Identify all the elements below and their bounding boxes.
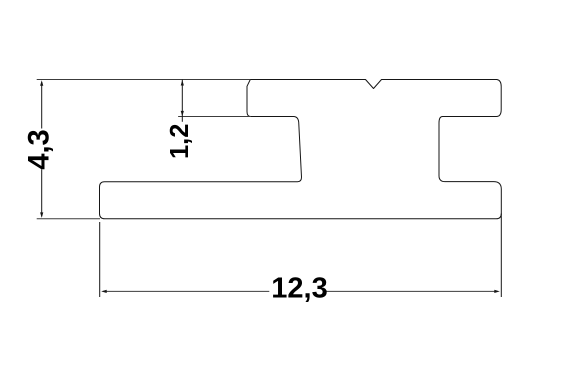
arrowhead 12,3 left [101, 290, 107, 293]
arrowhead 1,2 top [181, 80, 184, 86]
svg-text:4,3: 4,3 [24, 129, 56, 170]
arrowhead 12,3 right [494, 290, 500, 293]
dimension line 12,3 horizontal [103, 290, 270, 292]
svg-text:12,3: 12,3 [271, 273, 327, 305]
svg-text:1,2: 1,2 [166, 124, 194, 159]
extension line 12,3 left vertical [99, 222, 101, 297]
extension line top (4,3) collinear with cap top [37, 79, 251, 81]
dimension line 4,3 vertical [41, 82, 43, 129]
arrowhead 4,3 top [40, 80, 43, 86]
extension line 1,2 (step surface) [178, 116, 251, 118]
dimension line 1,2 vertical [181, 80, 183, 122]
arrowhead 1,2 bottom [181, 111, 184, 117]
extension line 12,3 right vertical [500, 214, 502, 298]
extension line bottom (4,3) collinear with base bottom [37, 218, 100, 220]
profile outline [100, 80, 502, 219]
arrowhead 4,3 bottom [40, 212, 43, 218]
